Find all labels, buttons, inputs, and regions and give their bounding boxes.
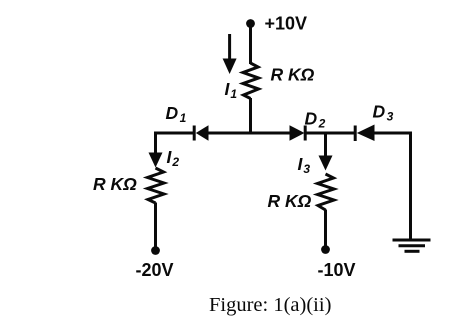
- current arrow I1: [223, 34, 237, 74]
- svg-text:Figure: 1(a)(ii): Figure: 1(a)(ii): [209, 294, 331, 316]
- svg-text:D1: D1: [166, 103, 187, 125]
- resistor R2: [148, 168, 165, 203]
- wire: left branch from bus with I2 arrow: [149, 132, 163, 168]
- svg-text:R KΩ: R KΩ: [271, 65, 315, 85]
- wire: resistor R1 bottom to bus: [249, 98, 252, 133]
- svg-text:-10V: -10V: [318, 260, 356, 280]
- svg-text:+10V: +10V: [265, 14, 308, 34]
- svg-text:D3: D3: [373, 102, 394, 124]
- wire: bus left segment: [156, 132, 195, 135]
- node -20V terminal dot: [151, 246, 160, 255]
- wire: resistor R2 to -20V terminal: [154, 203, 157, 249]
- svg-text:I2: I2: [167, 147, 180, 169]
- resistor R3: [318, 174, 335, 210]
- resistor R1: [243, 63, 259, 99]
- node +10V terminal dot: [246, 19, 255, 28]
- svg-text:D2: D2: [305, 109, 326, 131]
- svg-text:I1: I1: [225, 79, 238, 101]
- svg-text:I3: I3: [298, 154, 311, 176]
- svg-text:R KΩ: R KΩ: [93, 174, 137, 194]
- node -10V terminal dot: [321, 245, 330, 254]
- ground: [393, 240, 431, 251]
- wire: right branch from bus down to ground: [409, 132, 412, 241]
- diode D3: [355, 125, 374, 142]
- diode D1: [194, 125, 208, 141]
- wire: middle branch from bus with I3 arrow: [319, 132, 333, 171]
- wire: bus segment D1 to D2: [209, 132, 291, 135]
- svg-text:-20V: -20V: [136, 260, 174, 280]
- wire: +10V dot to resistor R1 top: [249, 25, 252, 64]
- wire: resistor R3 to -10V terminal: [324, 210, 327, 248]
- diode D2: [290, 125, 306, 141]
- wire: bus segment D3 to right corner: [375, 132, 413, 135]
- svg-text:R KΩ: R KΩ: [268, 191, 312, 211]
- wire: bus segment D2 to D3: [305, 132, 354, 135]
